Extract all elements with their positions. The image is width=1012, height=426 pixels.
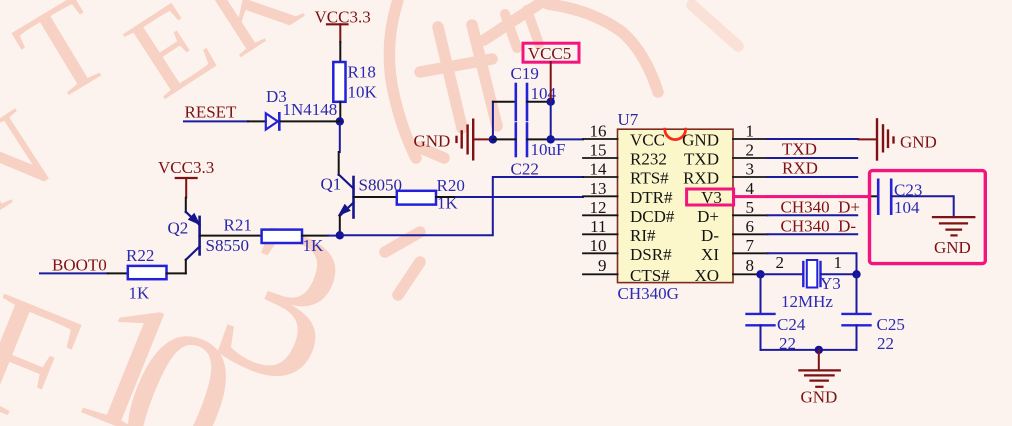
svg-text:VCC3.3: VCC3.3 [158,158,214,177]
svg-text:1K: 1K [303,236,325,255]
diode D3 1N4148 [266,87,337,130]
node junction C19/VCC5 [547,98,555,106]
svg-text:8: 8 [746,256,755,275]
U7 pin 6 [733,233,768,235]
svg-text:14: 14 [590,160,608,179]
wire [339,121,341,152]
wire [493,101,516,103]
capacitor C22 10uF [511,124,566,179]
svg-text:16: 16 [590,122,607,141]
wire (R22 to Q2 collector) [167,272,186,274]
watermark [0,0,738,426]
svg-text:15: 15 [590,141,607,160]
svg-text:Y3: Y3 [820,274,841,293]
wire [527,138,551,140]
wire (pin7 to crystal right) [768,253,857,274]
svg-text:4: 4 [746,179,755,198]
svg-text:C19: C19 [511,64,539,83]
node junction GND/C19/C22 [489,135,497,143]
wire [436,196,456,198]
svg-text:DCD#: DCD# [630,207,675,226]
resistor R22 1K [126,246,167,303]
wire [248,120,266,122]
svg-text:CH340 D+: CH340 D+ [781,198,860,217]
svg-text:R20: R20 [437,176,465,195]
svg-text:D+: D+ [697,207,719,226]
U7 pin 2 [733,157,768,159]
svg-text:11: 11 [590,217,606,236]
svg-text:C25: C25 [877,315,905,334]
node junction C22/pin16 [547,135,555,143]
svg-text:CH340G: CH340G [618,284,679,303]
svg-text:R232: R232 [630,150,667,169]
svg-text:RI#: RI# [630,226,656,245]
svg-text:XO: XO [694,266,719,285]
svg-text:CH340 D-: CH340 D- [781,217,857,236]
wire + net label CH340 D- [768,233,858,235]
wire [184,120,248,122]
IC U7 CH340G body [618,110,734,303]
power VCC3.3 (top) [315,8,371,43]
svg-text:GND: GND [414,132,451,151]
wire (Q1 base to R20) [354,196,397,198]
wire [891,196,954,217]
U7 pin 1 [733,138,768,140]
resistor R20 1K [397,176,465,213]
wire (down to C25) [856,274,858,314]
wire [760,325,762,350]
svg-text:Q1: Q1 [321,175,342,194]
wire [821,273,857,275]
svg-text:R22: R22 [126,246,154,265]
wire [339,42,341,62]
svg-text:GND: GND [900,133,937,152]
svg-text:3: 3 [746,160,755,179]
wire (R20 to pin13) [456,196,583,198]
node junction R18/D3 [336,117,344,125]
U7 pin 5 [733,214,768,216]
wire [550,102,552,140]
wire [302,235,328,237]
svg-text:VCC5: VCC5 [528,44,571,63]
highlight box V3 (pink) [687,189,734,205]
wire [339,102,341,118]
svg-text:22: 22 [877,334,894,353]
transistor Q1 S8050 [321,152,402,232]
svg-text:1K: 1K [129,284,151,303]
wire [527,101,551,103]
svg-text:RXD: RXD [782,159,818,178]
U7 pin 10 [583,252,618,254]
svg-text:XI: XI [701,245,719,264]
wire [856,325,858,350]
svg-text:S8050: S8050 [359,176,402,195]
svg-text:1N4148: 1N4148 [283,100,338,119]
wire [108,272,128,274]
ground (crystal) [799,350,839,407]
svg-text:VCC: VCC [630,131,665,150]
wire + net label TXD [768,157,858,159]
svg-text:C22: C22 [511,160,539,179]
wire [492,102,494,140]
capacitor C19 104 [511,64,557,120]
U7 pin 15 [583,157,618,159]
svg-text:10K: 10K [348,83,378,102]
node junction pin8/crystal/C24 [756,270,764,278]
U7 pin names [630,131,722,285]
svg-text:RXD: RXD [683,169,719,188]
wire + net label RXD [768,176,858,178]
svg-text:U7: U7 [618,110,639,129]
svg-text:2: 2 [776,253,785,272]
wire [493,138,516,140]
svg-text:GND: GND [682,131,719,150]
svg-text:5: 5 [746,198,755,217]
svg-text:S8550: S8550 [206,236,249,255]
U7 pin 14 [583,176,618,178]
svg-text:13: 13 [590,179,607,198]
svg-text:DSR#: DSR# [630,245,672,264]
svg-text:6: 6 [746,217,755,236]
capacitor C25 22 [843,314,905,353]
wire [40,272,108,274]
wire (pin4 to C23) [768,195,870,197]
svg-text:DTR#: DTR# [630,188,673,207]
svg-text:7: 7 [746,236,755,255]
highlight line (pink) [734,195,870,198]
svg-text:10uF: 10uF [531,140,566,159]
capacitor C24 22 [747,314,806,353]
ground (pin 1) [858,119,937,159]
U7 pin 3 [733,176,768,178]
node junction GND bottom [815,346,823,354]
node junction Q1 emitter / R21 [336,231,344,239]
svg-text:C24: C24 [777,315,806,334]
highlight box C23/GND (pink) [870,171,986,264]
svg-text:Q2: Q2 [168,219,189,238]
resistor R18 [333,62,377,102]
ground (C23) [933,217,974,257]
crystal Y3 12MHz [776,253,843,311]
wire (junction to RTS corner) [340,177,583,235]
U7 pin 8 [733,273,761,275]
U7 pin numbers [590,122,755,275]
U7 pin 12 [583,214,618,216]
wire (bottom across) [761,349,857,351]
U7 pin 13 [583,195,618,197]
power VCC5 [523,43,579,101]
wire (to pin 16) [551,138,583,140]
svg-text:RESET: RESET [185,103,238,122]
wire [328,235,340,237]
svg-text:GND: GND [801,388,838,407]
svg-text:104: 104 [894,198,920,217]
U7 pin 11 [583,233,618,235]
transistor Q2 S8550 [168,198,249,274]
ground (near C19) [414,120,493,160]
svg-text:R21: R21 [224,216,252,235]
svg-text:RTS#: RTS# [630,169,669,188]
svg-text:9: 9 [598,256,607,275]
wire [281,120,340,122]
wire + net label CH340 D+ [768,214,858,216]
U7 pin 9 [583,273,618,275]
svg-text:TXD: TXD [684,150,719,169]
capacitor C23 104 [878,180,922,217]
wire (Q2 base to R21) [200,235,262,237]
svg-text:1: 1 [746,122,755,141]
svg-text:1: 1 [834,253,843,272]
svg-text:R18: R18 [348,63,376,82]
U7 pin 4 [733,195,768,197]
svg-text:10: 10 [590,236,607,255]
wire (down to C24) [760,274,762,314]
svg-text:D-: D- [701,226,719,245]
svg-text:BOOT0: BOOT0 [52,255,107,274]
wire [761,273,804,275]
svg-text:12MHz: 12MHz [781,292,833,311]
svg-text:CTS#: CTS# [630,266,670,285]
svg-text:TXD: TXD [782,140,817,159]
U7 pin 16 [583,138,618,140]
svg-text:GND: GND [934,238,971,257]
svg-text:2: 2 [746,141,755,160]
svg-text:12: 12 [590,198,607,217]
node junction crystal/C25 [852,270,860,278]
wire (pin1 to GND) [768,138,859,140]
power VCC3.3 (Q2) [158,158,214,198]
U7 pin 7 [733,252,768,254]
resistor R21 1K [224,216,325,256]
